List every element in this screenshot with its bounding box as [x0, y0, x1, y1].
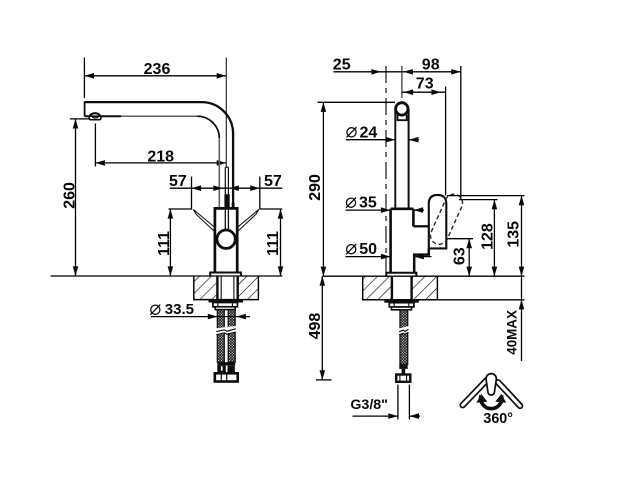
handle capsule solid — [429, 195, 447, 249]
dim 128 — [459, 199, 498, 201]
lever right (front) — [237, 209, 259, 232]
hose end nut side — [396, 375, 410, 382]
flange — [210, 273, 241, 276]
nut shoulder front — [215, 307, 235, 310]
rod collar step — [232, 203, 235, 209]
spout outline — [85, 102, 234, 208]
svg-text:63: 63 — [451, 247, 468, 265]
spout tube cap circle (side) — [396, 103, 408, 115]
icon lever right — [495, 379, 524, 409]
svg-text:G3/8": G3/8" — [350, 397, 388, 413]
svg-text:57: 57 — [169, 173, 187, 190]
dim 57/57 — [170, 177, 282, 210]
svg-text:25: 25 — [333, 56, 351, 73]
washer side — [384, 300, 419, 303]
svg-text:111: 111 — [156, 231, 173, 256]
icon arrowhead right — [495, 394, 506, 403]
dim 111 left — [169, 209, 193, 276]
svg-text:57: 57 — [264, 173, 282, 190]
dim G3/8 — [353, 385, 421, 420]
body side — [391, 208, 414, 211]
icon pivot pin — [486, 374, 496, 396]
dim 236 line — [84, 58, 226, 98]
svg-text:73: 73 — [416, 76, 434, 93]
hose fitting front — [217, 362, 235, 366]
ball joint — [217, 230, 235, 248]
ext line tube center (shared 236/218) — [225, 58, 227, 168]
icon lever left — [459, 376, 490, 408]
svg-text:290: 290 — [307, 174, 324, 201]
svg-text:360°: 360° — [483, 411, 513, 427]
lever left (front) — [193, 209, 215, 232]
hose fitting side — [399, 364, 407, 369]
dim 35 — [346, 209, 391, 211]
dim 218 — [95, 124, 226, 167]
svg-text:236: 236 — [144, 61, 171, 78]
svg-text:128: 128 — [479, 223, 496, 250]
mounting nut front — [213, 303, 238, 307]
nut shoulder side — [392, 307, 412, 310]
hose end nut front — [215, 373, 238, 381]
aerator inner arc — [92, 116, 98, 119]
mounting nut side — [389, 303, 414, 307]
handle capsule dashed (rotated) — [430, 194, 462, 244]
svg-text:498: 498 — [307, 313, 324, 340]
svg-text:111: 111 — [265, 231, 282, 256]
dim 498 — [321, 276, 323, 380]
svg-text:98: 98 — [422, 56, 440, 73]
tube cap bracket — [398, 115, 407, 120]
icon rotation arrow arc — [481, 395, 502, 408]
handle rod — [225, 166, 228, 168]
svg-text:260: 260 — [62, 182, 79, 209]
dim 63 — [448, 238, 474, 240]
svg-text:40MAX: 40MAX — [505, 310, 520, 355]
svg-text:33.5: 33.5 — [165, 301, 194, 318]
tube side edges — [394, 109, 396, 209]
dim 290 — [318, 102, 396, 276]
dim 25 / 98 — [334, 71, 461, 73]
icon arrowhead left — [476, 394, 487, 403]
body — [215, 208, 237, 272]
dim 260 — [70, 119, 90, 276]
svg-text:24: 24 — [360, 124, 378, 141]
dim 135 — [447, 195, 525, 197]
flange side — [386, 273, 416, 276]
dim 40MAX — [521, 276, 523, 361]
dim 111 right — [260, 209, 283, 276]
svg-text:135: 135 — [506, 221, 523, 248]
washer front — [209, 300, 244, 303]
counter side — [323, 275, 525, 277]
dim 73 — [403, 91, 446, 93]
aerator dome — [90, 113, 101, 116]
hose side — [400, 310, 408, 365]
svg-text:35: 35 — [359, 195, 377, 212]
svg-text:218: 218 — [147, 148, 174, 165]
dim 24 — [346, 139, 395, 141]
dim 33.5 — [151, 316, 250, 318]
counter front — [51, 275, 283, 277]
aerator collar — [89, 116, 101, 120]
svg-text:50: 50 — [359, 241, 377, 258]
hoses front — [216, 310, 236, 363]
shank side — [391, 276, 393, 300]
shank front — [216, 276, 218, 300]
dim 50 — [346, 256, 391, 258]
